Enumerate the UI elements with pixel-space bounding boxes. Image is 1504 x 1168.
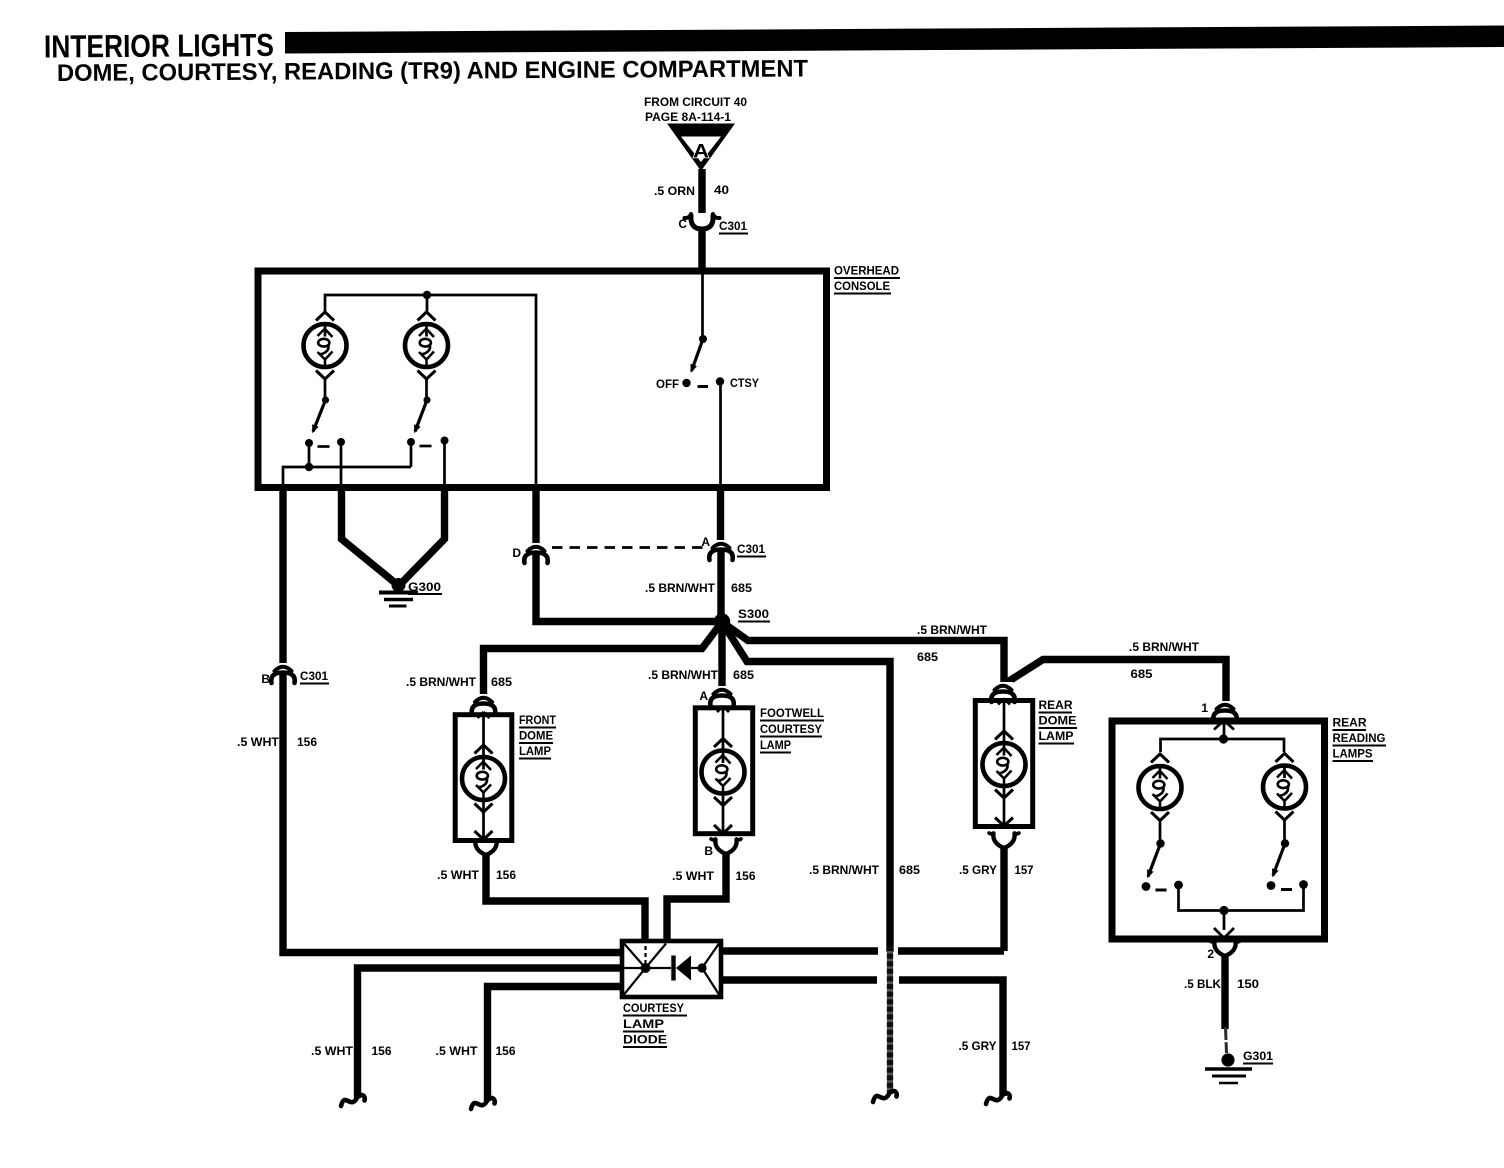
- svg-text:D: D: [512, 546, 521, 560]
- svg-text:.5 BRN/WHT: .5 BRN/WHT: [645, 581, 716, 595]
- svg-text:2: 2: [1207, 947, 1214, 961]
- svg-text:READING: READING: [1333, 731, 1386, 745]
- svg-text:685: 685: [899, 863, 920, 877]
- svg-text:685: 685: [917, 650, 938, 664]
- svg-text:156: 156: [297, 735, 317, 749]
- svg-text:.5 WHT: .5 WHT: [436, 1044, 479, 1058]
- svg-text:.5 BRN/WHT: .5 BRN/WHT: [917, 623, 988, 637]
- svg-text:B: B: [704, 844, 713, 858]
- svg-text:A: A: [699, 689, 708, 703]
- svg-text:CTSY: CTSY: [730, 376, 759, 390]
- svg-text:FRONT: FRONT: [519, 713, 557, 727]
- svg-text:PAGE 8A-114-1: PAGE 8A-114-1: [645, 110, 731, 124]
- svg-text:156: 156: [736, 869, 756, 883]
- svg-text:.5 BRN/WHT: .5 BRN/WHT: [406, 675, 477, 689]
- svg-text:.5 GRY: .5 GRY: [959, 863, 997, 877]
- svg-text:C301: C301: [737, 542, 765, 556]
- svg-text:.5 BLK: .5 BLK: [1184, 977, 1221, 991]
- svg-text:.5 ORN: .5 ORN: [654, 184, 695, 198]
- svg-text:.5 GRY: .5 GRY: [959, 1039, 997, 1053]
- svg-text:156: 156: [372, 1044, 392, 1058]
- svg-text:1: 1: [1201, 701, 1208, 715]
- svg-text:.5 WHT: .5 WHT: [437, 868, 480, 882]
- svg-text:DOME: DOME: [1039, 714, 1077, 728]
- svg-text:.5 BRN/WHT: .5 BRN/WHT: [1129, 640, 1200, 654]
- svg-text:DOME, COURTESY, READING (TR9): DOME, COURTESY, READING (TR9) AND ENGINE…: [57, 55, 808, 87]
- svg-text:DOME: DOME: [519, 729, 553, 743]
- svg-text:REAR: REAR: [1333, 716, 1367, 730]
- svg-text:.5 BRN/WHT: .5 BRN/WHT: [809, 863, 880, 877]
- svg-text:.5 WHT: .5 WHT: [672, 869, 715, 883]
- svg-text:S300: S300: [738, 607, 769, 621]
- svg-text:156: 156: [496, 868, 516, 882]
- svg-text:C301: C301: [300, 669, 328, 683]
- svg-text:.5 WHT: .5 WHT: [311, 1044, 354, 1058]
- svg-text:LAMP: LAMP: [623, 1017, 664, 1031]
- svg-text:LAMP: LAMP: [1039, 729, 1074, 743]
- svg-text:156: 156: [496, 1044, 516, 1058]
- svg-text:685: 685: [1131, 667, 1153, 681]
- svg-text:DIODE: DIODE: [623, 1033, 667, 1047]
- svg-text:B: B: [261, 672, 270, 686]
- svg-text:LAMP: LAMP: [760, 738, 791, 752]
- svg-text:.5 WHT: .5 WHT: [237, 735, 280, 749]
- svg-text:C301: C301: [719, 219, 747, 233]
- svg-text:685: 685: [731, 581, 752, 595]
- svg-text:157: 157: [1012, 1039, 1031, 1053]
- svg-text:COURTESY: COURTESY: [760, 722, 822, 736]
- svg-text:LAMPS: LAMPS: [1333, 747, 1373, 761]
- svg-text:A: A: [701, 535, 710, 549]
- svg-text:FOOTWELL: FOOTWELL: [760, 706, 824, 720]
- svg-text:.5 BRN/WHT: .5 BRN/WHT: [648, 668, 719, 682]
- svg-text:LAMP: LAMP: [519, 744, 551, 758]
- svg-text:A: A: [693, 142, 709, 163]
- svg-text:FROM CIRCUIT 40: FROM CIRCUIT 40: [644, 95, 747, 109]
- svg-text:157: 157: [1015, 863, 1034, 877]
- svg-text:G301: G301: [1243, 1049, 1273, 1063]
- svg-text:CONSOLE: CONSOLE: [834, 279, 890, 293]
- svg-text:40: 40: [714, 183, 729, 197]
- svg-text:685: 685: [733, 668, 754, 682]
- svg-text:OVERHEAD: OVERHEAD: [834, 264, 899, 278]
- svg-text:685: 685: [491, 675, 512, 689]
- svg-text:COURTESY: COURTESY: [623, 1001, 684, 1015]
- svg-text:REAR: REAR: [1039, 698, 1073, 712]
- svg-text:G300: G300: [408, 580, 441, 594]
- svg-text:OFF: OFF: [656, 377, 679, 391]
- svg-text:C: C: [678, 217, 687, 231]
- svg-text:150: 150: [1237, 977, 1259, 991]
